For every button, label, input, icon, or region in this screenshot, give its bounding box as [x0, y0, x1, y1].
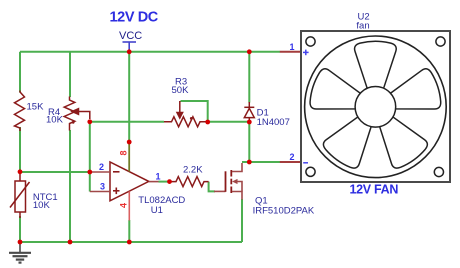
fan mounting hole bottom-right: [434, 167, 443, 176]
svg-text:3: 3: [100, 182, 105, 192]
blade lower-right: [369, 110, 430, 173]
svg-text:10K: 10K: [33, 200, 51, 211]
fan outer circle: [305, 36, 447, 178]
junction op-amp input node: [87, 170, 92, 175]
resistor 15K: [15, 91, 25, 132]
wire D1 anode to drain node: [248, 122, 250, 162]
blade upper-right: [387, 67, 445, 121]
blade up: [355, 41, 397, 88]
fan mounting hole top-right: [436, 37, 445, 46]
fan U2 body frame: [301, 31, 450, 182]
junction output node: [167, 179, 172, 184]
VCC power symbol: [123, 42, 137, 51]
junction D1 anode node: [247, 120, 252, 125]
R4 wiper arrow: [72, 109, 90, 119]
transistor Q1 MOSFET: [226, 170, 232, 193]
fan mounting hole bottom-left: [306, 167, 315, 176]
wire x70 vertical upper (to R4): [69, 52, 71, 97]
svg-text:2: 2: [99, 162, 104, 172]
junction ground R4: [68, 240, 73, 245]
junction ground pin4: [127, 240, 132, 245]
wire left vertical upper (to 15K): [19, 52, 21, 93]
wire 2.2K to gate: [209, 182, 215, 192]
R4 terminal dot: [72, 121, 75, 124]
op-amp U1 triangle: [110, 162, 149, 201]
svg-text:fan: fan: [356, 21, 369, 32]
wire x70 vertical lower (R4 to ground rail): [69, 130, 71, 242]
junction R4 wiper node: [87, 119, 92, 124]
svg-text:IRF510D2PAK: IRF510D2PAK: [253, 206, 315, 217]
resistor 2.2K: [172, 177, 209, 187]
blade upper-left: [307, 67, 365, 121]
junction R3 right terminal: [205, 120, 210, 125]
svg-text:VCC: VCC: [119, 30, 142, 42]
wire gate lead: [214, 190, 226, 192]
svg-text:4: 4: [118, 203, 128, 208]
svg-text:50K: 50K: [172, 85, 190, 96]
op-amp minus sign: [113, 171, 120, 173]
potentiometer R3 50K: [164, 117, 206, 127]
wire op-amp pin 4 to ground rail: [128, 220, 130, 242]
wire R3 right to D1 anode node: [208, 121, 250, 123]
wire drain node to fan pin 2: [242, 161, 280, 163]
junction VCC tap: [127, 49, 132, 54]
wire ground rail: [20, 241, 242, 243]
wire R4 wiper node vertical down to input node: [89, 122, 91, 192]
fan pin 1 stub: [280, 51, 301, 53]
fan mounting hole top-left: [306, 37, 315, 46]
op-amp pin 2 stub: [90, 171, 110, 173]
junction pin 8 node: [127, 140, 132, 145]
svg-text:12V DC: 12V DC: [110, 10, 159, 26]
svg-text:U1: U1: [151, 205, 163, 216]
blade lower-left: [320, 110, 381, 173]
thermistor NTC1: [10, 172, 30, 218]
op-amp pin 4 stub: [128, 191, 130, 220]
potentiometer R4 10K: [64, 97, 75, 131]
ground symbol: [9, 242, 31, 263]
svg-text:1N4007: 1N4007: [257, 117, 290, 128]
svg-text:12V FAN: 12V FAN: [350, 183, 399, 197]
op-amp pin 3 stub: [90, 191, 110, 193]
svg-text:1: 1: [290, 42, 295, 52]
op-amp plus sign: [113, 188, 120, 195]
wire op-amp output to 2.2K: [159, 181, 170, 183]
svg-text:15K: 15K: [27, 102, 45, 113]
drain lead: [232, 163, 242, 172]
R3 wiper arrow: [177, 101, 183, 118]
wire wiper node to R3 left: [90, 121, 164, 123]
wire MOSFET source to ground rail: [241, 199, 243, 242]
junction D1 branch at rail: [247, 49, 252, 54]
svg-text:10K: 10K: [46, 115, 64, 126]
junction drain / fan pin2 node: [247, 160, 252, 165]
fan plus marking: [303, 50, 309, 56]
svg-text:2.2K: 2.2K: [183, 165, 203, 176]
wire R3 wiper loop: [181, 101, 208, 122]
channel dashes: [230, 170, 232, 177]
fan minus marking: [303, 162, 308, 164]
junction NTC divider node: [18, 169, 23, 174]
R3 terminal dot: [190, 117, 193, 120]
junction ground left: [18, 240, 23, 245]
op-amp pin 1 output stub: [149, 181, 159, 183]
body arrow: [232, 179, 238, 184]
gate bar: [225, 171, 227, 192]
fan pin 2 stub: [280, 161, 301, 163]
svg-text:Q1: Q1: [255, 195, 268, 206]
op-amp pin 8 stub: [128, 144, 130, 172]
svg-text:8: 8: [118, 150, 128, 155]
wire left vertical mid (15K to NTC node): [19, 127, 21, 172]
source lead: [232, 192, 242, 200]
wire left vertical lower (NTC to ground rail): [19, 216, 21, 242]
diode D1 1N4007: [244, 102, 254, 122]
wire D1 branch from top rail: [248, 52, 250, 103]
fan hub: [355, 87, 396, 128]
body connection: [236, 182, 242, 192]
wire VCC branch to op-amp pin 8: [128, 52, 130, 142]
svg-text:2: 2: [290, 152, 295, 162]
fan blades: [307, 41, 444, 172]
svg-text:1: 1: [156, 172, 161, 182]
wire top rail VCC: [20, 51, 280, 53]
wire node A horizontal (divider to op-amp inputs): [20, 171, 90, 173]
